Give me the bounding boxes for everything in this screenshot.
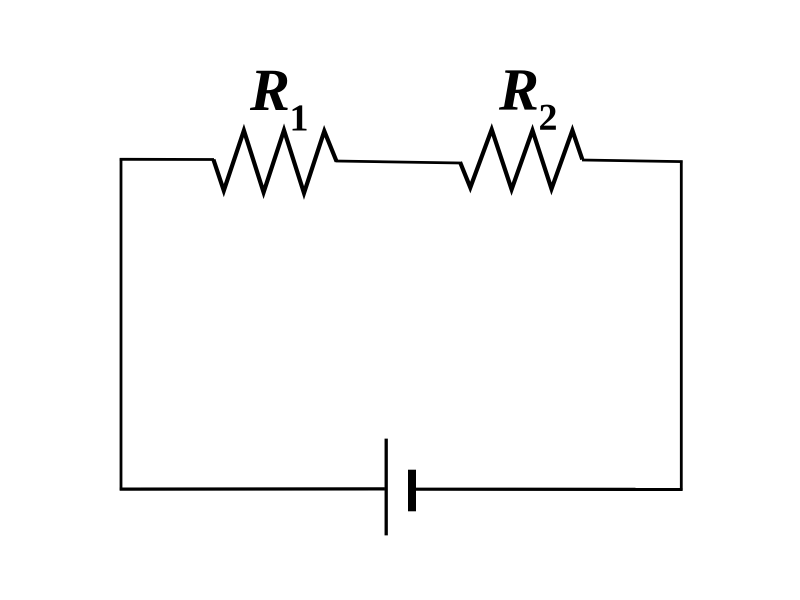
battery B1 negative plate (short thick) xyxy=(408,470,416,512)
wire left vertical xyxy=(120,158,123,490)
wire bottom-right segment xyxy=(416,488,683,491)
wire bottom-left segment xyxy=(120,487,385,490)
wire right vertical xyxy=(680,160,683,490)
wire top-left segment xyxy=(120,158,214,161)
battery B1 positive plate (long) xyxy=(385,439,388,536)
label R1 xyxy=(250,71,307,131)
wire top-right segment xyxy=(582,160,683,162)
label R2 xyxy=(499,70,556,129)
resistor R2 xyxy=(460,130,582,190)
wire top-middle segment xyxy=(336,161,461,163)
resistor R1 xyxy=(213,130,336,193)
